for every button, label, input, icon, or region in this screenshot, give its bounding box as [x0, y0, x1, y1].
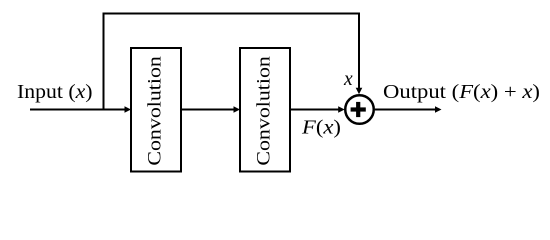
adder: plus horizontal bar	[351, 107, 366, 111]
wire: Conv2 to adder	[290, 109, 339, 111]
wire: input horizontal line	[30, 109, 126, 111]
svg-text:x: x	[343, 69, 353, 90]
arrowhead: into Conv2	[234, 106, 241, 112]
svg-text:Convolution: Convolution	[145, 56, 166, 166]
wire: skip connection vertical rise at junction	[103, 13, 105, 111]
block: Convolution 1 box	[131, 48, 181, 172]
svg-text:F(x): F(x)	[301, 118, 341, 139]
adder: circle	[345, 95, 374, 124]
adder: plus vertical bar	[356, 102, 360, 117]
arrowhead: input into Conv1	[125, 106, 132, 112]
block: Convolution 2 box	[240, 48, 290, 172]
svg-text:Input (x): Input (x)	[17, 82, 93, 103]
arrowhead: output	[435, 106, 442, 112]
svg-text:Convolution: Convolution	[254, 56, 275, 166]
wire: adder to output	[375, 109, 436, 111]
arrowhead: skip into adder (down)	[356, 88, 363, 94]
wire: skip connection vertical drop	[358, 13, 360, 89]
svg-text:Output (F(x) + x): Output (F(x) + x)	[383, 82, 540, 103]
arrowhead: into adder (right)	[338, 106, 345, 112]
wire: skip connection top horizontal	[103, 13, 361, 15]
wire: Conv1 to Conv2	[181, 109, 235, 111]
